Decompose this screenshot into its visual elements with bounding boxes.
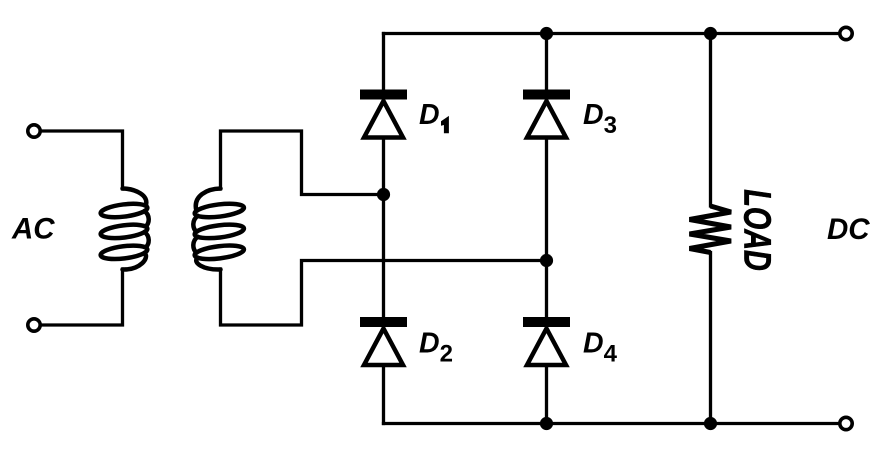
svg-text:D: D — [419, 99, 440, 131]
inductor secondary winding — [193, 189, 244, 270]
node bottom load — [704, 417, 717, 430]
resistor LOAD — [690, 206, 732, 253]
node top D3 — [540, 27, 553, 40]
terminal AC top — [28, 125, 40, 137]
node bottom D4 — [540, 417, 553, 430]
diode D1 — [360, 90, 407, 138]
svg-text:AC: AC — [11, 213, 55, 246]
wire AC top: terminal to primary — [42, 131, 123, 189]
terminal DC bottom — [840, 417, 852, 429]
diode D2 — [360, 317, 407, 365]
wire right bridge branch D3 D4 — [545, 34, 548, 424]
terminal DC top — [840, 27, 852, 39]
terminal AC bottom — [28, 319, 40, 331]
node B — [540, 254, 553, 267]
node A — [377, 188, 390, 201]
wire secondary bottom to node B — [221, 261, 547, 326]
node top load — [704, 27, 717, 40]
wire top rail — [384, 32, 839, 35]
diode D4 — [523, 317, 570, 365]
label D1 — [419, 99, 449, 133]
inductor primary winding — [100, 189, 149, 270]
svg-text:DC: DC — [827, 213, 870, 246]
wire bottom rail — [384, 422, 839, 425]
wire secondary top to node A — [221, 131, 384, 195]
wire AC bottom: terminal to primary — [42, 269, 123, 325]
wire load branch — [709, 34, 712, 424]
svg-text:LOAD: LOAD — [736, 189, 778, 270]
wire left bridge branch D1 D2 — [382, 34, 385, 424]
diode D3 — [523, 90, 570, 138]
